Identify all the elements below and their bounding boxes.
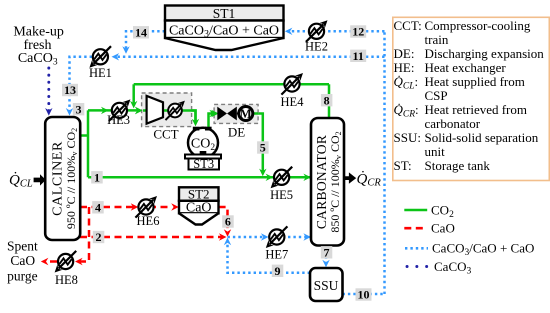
svg-text:HE1: HE1 — [89, 66, 112, 80]
svg-text:CCT:: CCT: — [394, 18, 422, 33]
svg-text:CaCO3/CaO + CaO: CaCO3/CaO + CaO — [432, 241, 534, 259]
svg-text:14: 14 — [135, 26, 147, 40]
svg-text:9: 9 — [275, 264, 281, 278]
svg-text:850 ºC // 100%v CO2: 850 ºC // 100%v CO2 — [328, 131, 343, 232]
svg-text:950 ºC // 100%v CO2: 950 ºC // 100%v CO2 — [64, 128, 79, 229]
svg-text:HE8: HE8 — [55, 273, 78, 287]
svg-text:Discharging expansion: Discharging expansion — [425, 46, 545, 61]
svg-text:SSU:: SSU: — [394, 130, 421, 145]
svg-text:HE4: HE4 — [281, 95, 305, 109]
svg-text:CaCO3: CaCO3 — [434, 259, 472, 277]
svg-text:CaO: CaO — [186, 201, 212, 216]
svg-text:Storage tank: Storage tank — [425, 158, 491, 173]
svg-text:train: train — [425, 32, 449, 47]
svg-text:12: 12 — [352, 25, 364, 39]
svg-text:DE: DE — [228, 125, 245, 140]
svg-text:5: 5 — [260, 141, 266, 155]
svg-text:HE6: HE6 — [137, 214, 160, 228]
svg-text:HE7: HE7 — [265, 248, 288, 262]
svg-text:Q̇CL: Q̇CL — [9, 172, 33, 189]
svg-text:2: 2 — [96, 230, 102, 244]
svg-text:Spent: Spent — [7, 239, 38, 254]
svg-text:CCT: CCT — [153, 127, 178, 142]
svg-text:M: M — [240, 107, 252, 121]
svg-text:Heat retrieved from: Heat retrieved from — [425, 102, 528, 117]
svg-text:10: 10 — [358, 288, 370, 302]
svg-text:CaCO3/CaO + CaO: CaCO3/CaO + CaO — [169, 24, 279, 41]
svg-text:13: 13 — [64, 83, 76, 97]
svg-text:SSU: SSU — [314, 278, 339, 293]
svg-text:CARBONATOR: CARBONATOR — [314, 135, 329, 229]
svg-text:Q̇CR: Q̇CR — [357, 171, 382, 188]
svg-text:ST3: ST3 — [193, 157, 214, 171]
svg-text:ST:: ST: — [394, 158, 412, 173]
svg-text:HE2: HE2 — [305, 40, 328, 54]
svg-text:Compressor-cooling: Compressor-cooling — [425, 18, 531, 33]
svg-text:1: 1 — [94, 171, 100, 185]
svg-text:7: 7 — [324, 246, 330, 260]
svg-text:11: 11 — [353, 49, 364, 63]
svg-text:CSP: CSP — [425, 88, 448, 103]
svg-text:HE3: HE3 — [107, 113, 130, 127]
svg-text:Solid-solid separation: Solid-solid separation — [425, 130, 539, 145]
svg-text:3: 3 — [76, 102, 82, 116]
svg-text:ST1: ST1 — [213, 6, 236, 21]
svg-text:CaCO3: CaCO3 — [18, 51, 58, 67]
svg-text:CaO: CaO — [431, 221, 455, 236]
svg-text:ST2: ST2 — [188, 187, 210, 202]
svg-text:purge: purge — [7, 269, 38, 284]
svg-text:Heat supplied from: Heat supplied from — [425, 74, 525, 89]
svg-text:carbonator: carbonator — [425, 116, 481, 131]
svg-text:6: 6 — [225, 215, 231, 229]
svg-text:HE:: HE: — [394, 60, 415, 75]
svg-text:CO2: CO2 — [431, 202, 454, 220]
svg-text:unit: unit — [425, 144, 446, 159]
svg-text:Heat exchanger: Heat exchanger — [425, 60, 507, 75]
svg-text:4: 4 — [95, 201, 101, 215]
svg-text:8: 8 — [324, 93, 330, 107]
svg-text:DE:: DE: — [394, 46, 415, 61]
svg-text:HE5: HE5 — [270, 188, 293, 202]
svg-text:CaO: CaO — [10, 253, 35, 268]
